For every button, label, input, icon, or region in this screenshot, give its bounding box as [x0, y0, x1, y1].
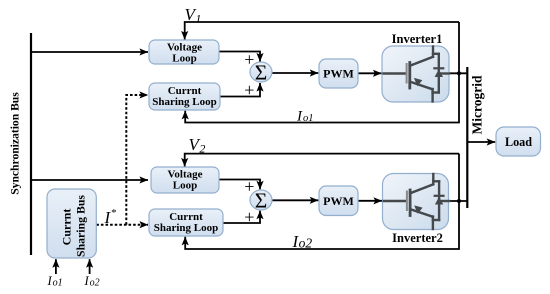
svg-text:Sharing Loop: Sharing Loop [152, 96, 217, 108]
svg-text:V2: V2 [189, 135, 206, 156]
svg-text:+: + [244, 207, 254, 227]
svg-text:+: + [244, 80, 254, 100]
svg-text:Sharing Loop: Sharing Loop [154, 222, 219, 234]
svg-text:PWM: PWM [323, 67, 354, 81]
svg-text:Σ: Σ [255, 189, 268, 213]
svg-text:+: + [244, 49, 254, 69]
svg-text:Sharing Bus: Sharing Bus [74, 195, 88, 257]
svg-text:Load: Load [505, 135, 532, 149]
svg-text:PWM: PWM [323, 194, 354, 208]
svg-text:Inverter1: Inverter1 [392, 32, 443, 46]
svg-text:Currnt: Currnt [60, 209, 74, 246]
svg-text:Loop: Loop [173, 180, 197, 192]
svg-text:V1: V1 [185, 5, 202, 26]
svg-text:Loop: Loop [172, 53, 196, 65]
svg-text:Σ: Σ [255, 61, 268, 85]
svg-text:+: + [244, 176, 254, 196]
svg-text:Io2: Io2 [84, 274, 100, 289]
svg-text:Io2: Io2 [292, 232, 313, 251]
svg-text:Io1: Io1 [47, 274, 63, 289]
svg-text:I*: I* [104, 207, 117, 227]
svg-text:Inverter2: Inverter2 [392, 231, 443, 245]
svg-text:Io1: Io1 [296, 109, 314, 125]
svg-text:Synchronization Bus: Synchronization Bus [9, 92, 22, 195]
svg-text:Microgrid: Microgrid [470, 75, 485, 134]
